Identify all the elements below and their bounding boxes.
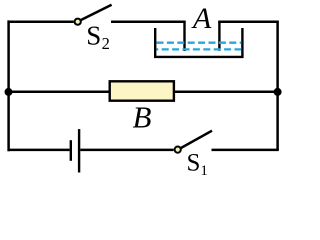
wire: left vertical xyxy=(7,20,10,151)
wire: middle left (node to resistor) xyxy=(9,91,110,94)
switch S2 pivot circle xyxy=(75,19,81,25)
electrode left of cell A xyxy=(183,22,185,51)
switch S1 pivot circle xyxy=(175,147,181,153)
electrode right of cell A xyxy=(218,22,220,51)
wire: top-left horizontal to switch S2 xyxy=(8,20,74,23)
wire: middle right (resistor to node) xyxy=(174,91,278,94)
svg-text:B: B xyxy=(133,99,152,134)
switch S1 lever xyxy=(181,131,212,148)
wire: bottom-right horizontal xyxy=(212,149,279,152)
battery long plate xyxy=(78,129,80,172)
node left junction xyxy=(5,88,13,96)
switch S2 lever xyxy=(81,5,112,20)
node right junction xyxy=(274,88,282,96)
battery short plate xyxy=(70,140,72,161)
beaker of electrolytic cell A xyxy=(155,28,242,57)
wire: bottom-left horizontal to battery xyxy=(8,149,70,152)
liquid dashed line row 1 xyxy=(157,42,242,44)
wire: top-right horizontal and right vertical xyxy=(218,22,277,150)
liquid dashed line row 2 xyxy=(157,48,242,50)
wire: top horizontal from S2 to electrode xyxy=(111,20,186,23)
resistor B body xyxy=(110,81,174,100)
svg-text:A: A xyxy=(191,2,212,35)
wire: battery to switch S1 xyxy=(80,149,173,152)
